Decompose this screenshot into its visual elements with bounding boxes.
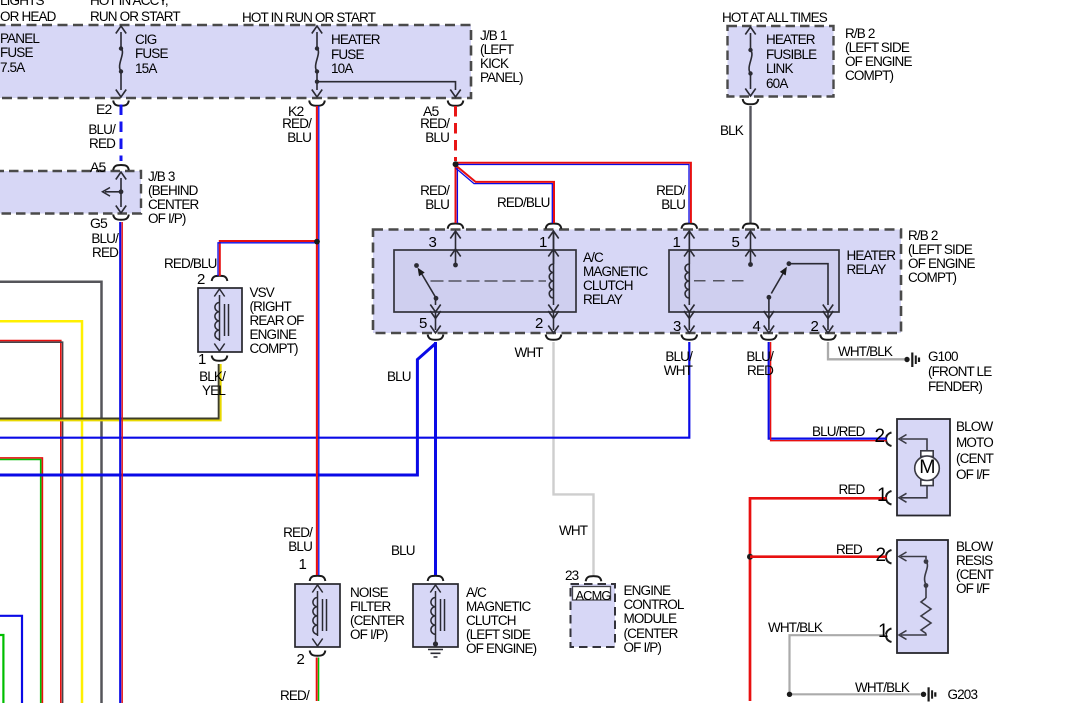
pin 5 A/C relay [419,316,427,331]
wire RED/BLU junction to heater relay pin 1 [457,163,691,223]
label WHT/BLK (G100 wire) [838,345,892,359]
label heater fuse [331,33,380,77]
connector arc A/C relay pin 5 (bottom) [428,335,444,340]
wire BLK/YEL from VSV pin 1 [0,364,219,419]
connector blower resistor pin 2 [886,550,892,564]
relay block R/B 2 heater fusible link box [728,26,834,97]
connector arc heater relay pin 5 [743,224,759,229]
label R/B 2 top [845,27,912,83]
header HOT IN ACCY RUN OR START [90,0,180,25]
connector blower resistor pin 1 [886,629,892,643]
label RED/BLU (heater pin 1 wire) [625,184,685,212]
header HOT IN RUN OR START [242,11,375,25]
wire BLU/RED from G5 down [119,222,121,703]
motor M letter [917,460,937,474]
pin 2 A/C relay [535,316,543,331]
label BLU (pin 5 wire) [387,370,411,384]
noise filter (center of I/P) box [295,584,340,647]
VSV solenoid symbol [214,289,228,351]
wire BLU/RED from heater relay pin 4 to blower motor pin 2 [769,342,887,439]
wire BLU/RED dashed from E2 to J/B 3 [120,105,123,162]
pin 1 heater relay [673,235,681,250]
wire BLK from heater fusible link to heater relay pin 5 [749,106,751,223]
junction on WHT/BLK at G203 [787,692,792,697]
wire WHT/BLK from blower resistor pin 1 to G203 [790,635,921,694]
connector blower motor pin 2 [886,433,892,447]
terminal A5 [423,104,438,118]
label BLU/RED (blower wire) [812,425,865,439]
label RED/BLU (K2 wire) [251,117,311,145]
heater relay pin 1 coil lead [684,231,694,264]
wire RED/BLU from K2 to noise filter pin 1 [316,106,318,575]
label noise filter [350,586,404,642]
heater relay pin 4 lead [764,311,774,333]
label RED/ (cut) [280,689,309,703]
wire BLU from A/C relay pin 5 to A/C magnetic clutch [434,342,437,575]
J/B 3 internal bus with arrows [103,172,127,213]
header HOT AT ALL TIMES [722,11,827,25]
connector VSV pin 2 [212,276,228,281]
terminal K2 [288,104,303,118]
label BLK [720,124,743,138]
connector terminal A5 (J/B 1) [448,101,464,106]
wire WHT from A/C relay pin 2 to ECM pin 23 [554,342,594,575]
heater relay pin 3 lead [684,311,694,333]
A/C magnetic clutch (left side of engine) box [413,584,458,647]
wire WHT/BLK from heater relay pin 2 to G100 [828,342,905,359]
wire RED/BLU dashed from A5 down [454,106,457,161]
wire left RED/GRN elbow [0,458,42,703]
pin 5 heater relay [732,235,740,250]
connector arc heater relay pin 3 (bottom) [682,335,698,340]
pin 3 heater relay [673,319,681,334]
blower resistor internals: thermal fuse and resistor element [899,552,931,640]
pin 1 blower motor [877,486,887,505]
wire RED from blower motor pin 1 [750,498,887,701]
connector blower motor pin 1 [886,491,892,505]
pin 1 blower resistor [878,622,888,641]
junction box J/B 1 (left kick panel) [0,25,471,98]
label RED/BLU (noise filter wire) [252,526,312,554]
pin 2 VSV [197,272,205,287]
ground symbol at A/C clutch [428,641,443,657]
heater relay pin 5 stub [745,231,755,267]
blower motor (center of I/P) box [897,419,950,516]
pin 4 heater relay [753,319,761,334]
fusible link HEATER FUSIBLE LINK 60A [745,27,755,96]
connector A/C clutch pin [428,576,444,581]
junction node below A5 [453,161,459,167]
junction on RED wire [747,554,753,560]
label BLK/YEL [165,370,225,398]
label heater relay [847,249,896,277]
A/C relay pin 1 coil lead [548,231,558,264]
wire left blue elbow [0,616,22,703]
label WHT [515,346,543,360]
pin 2 blower motor [875,427,885,446]
connector arc A/C relay pin 2 (bottom) [546,335,562,340]
label BLU/WHT [632,350,692,378]
ACMG pin name white box [573,587,611,601]
connector terminal A5 (J/B 3 top) [113,165,129,170]
ground symbol G203 [921,687,936,701]
connector arc heater relay pin 2 (bottom) [820,335,836,340]
pin 2 heater relay [811,319,819,334]
wire RED/BLU junction diagonal to A/C relay pin 1 [457,166,554,223]
A/C relay pin 3 stub [450,231,460,267]
label G203 [948,688,978,702]
heater relay inner box [669,250,839,312]
heater relay switch [767,261,834,312]
junction on K2 wire for VSV branch [314,239,320,245]
label RED/BLU (A5 wire) [389,117,449,145]
junction box J/B 3 (behind center of I/P) [0,171,141,214]
connector arc heater relay pin 4 (bottom) [761,335,777,340]
connector noise filter pin 2 [310,651,326,656]
label RED/BLU (VSV branch) [164,257,217,271]
pin 23 ECM [565,569,578,583]
label RED/BLU (pin 1 wire) [497,196,550,210]
label WHT/BLK (resistor wire) [768,621,822,635]
terminal E2 [96,102,111,116]
label cig fuse [135,33,168,77]
wire left yellow elbow [0,321,82,703]
noise filter coil symbol [312,585,326,646]
connector arcs on relay box top: pin 3 [448,224,464,229]
label RED (resistor pin 2 wire) [836,543,862,557]
label A/C magnetic clutch [466,586,536,656]
label engine control module [624,584,684,655]
connector terminal K2 [309,101,325,106]
heater relay coil [684,232,694,312]
connector terminal G5 (J/B 3 bottom) [113,215,129,220]
label RED (blower pin 1 wire) [839,483,865,497]
wire left green elbow [0,635,3,703]
A/C relay pin 2 lead [548,311,558,333]
label A/C magnetic clutch relay [583,251,647,307]
label WHT (ECM wire) [559,524,587,538]
terminal A5 (J/B 3) [90,160,105,174]
pin 1 noise filter [299,557,307,572]
wire RED/GRN from noise filter pin 2 [316,658,318,702]
pin 3 A/C relay [429,235,437,250]
wire BLU/WHT from heater relay pin 3 going left [0,342,689,438]
label blower motor (cut) [956,419,993,483]
label panel fuse [0,32,39,76]
pin 2 noise filter [297,652,305,667]
label VSV [250,286,304,356]
label heater fusible link [766,33,816,91]
label BLU (clutch wire) [391,544,415,558]
A/C magnetic clutch coil symbol [430,585,444,644]
connector terminal E2 [113,101,129,106]
connector noise filter pin 1 [310,576,326,581]
label G100 [928,349,991,395]
wire inside J/B 1 from heater fuse to terminal A5 [315,80,461,98]
A/C relay coil [548,232,558,312]
engine control module (ACMG) box [571,584,616,647]
label R/B 2 right [908,229,975,285]
pin name ACMG [576,589,611,603]
heater relay actuation dashed line [694,280,748,282]
label RED/BLU (pin 3 wire) [389,184,449,212]
relay block R/B 2 (left side of engine compt) outer dashed box [373,230,901,334]
wire left RED/BLK elbow [0,341,61,703]
VSV (right rear of engine compt) box [198,288,242,352]
fuse CIG FUSE 15A [116,26,126,97]
label blower resistor (cut) [956,540,993,596]
A/C relay actuation dashed line [431,280,547,282]
label WHT/BLK (G203 wire) [855,681,909,695]
A/C relay pin 5 lead [430,305,440,334]
pin 1 VSV [198,352,206,367]
wire RED branch to blower resistor pin 2 [750,555,887,558]
wire BLU heavy from A/C relay pin 5 going left [0,344,436,476]
connector VSV pin 1 [212,356,228,361]
wire RED/BLU branch to VSV pin 2 [220,241,317,276]
ground symbol G100 [904,353,919,368]
label BLU/RED (pin 4) [713,350,773,378]
connector ECM pin 23 [586,576,602,581]
wire RED/BLU junction to A/C relay pin 3 [455,164,457,223]
header text (cut) tail lights [0,0,56,25]
A/C relay switch [414,263,438,305]
connector arc heater relay pin 1 [682,224,698,229]
A/C magnetic clutch relay inner box [394,250,576,312]
pin 1 A/C relay [539,235,547,250]
blower resistor (center of I/P) box [897,540,948,653]
label BLU/RED (G5 wire) [58,232,118,260]
connector arc A/C relay pin 1 [546,224,562,229]
connector below fusible link [743,99,759,104]
pin 2 blower resistor [876,546,886,565]
label BLU/RED (E2 wire) [55,123,115,151]
heater relay pin 2 lead [823,311,833,333]
label J/B 3 [148,170,198,226]
terminal G5 [90,216,107,230]
blower motor internal wiring and motor symbol [899,435,939,503]
wire left gray (BLK) elbow [0,282,102,703]
label J/B 1 [480,29,523,85]
fuse HEATER FUSE 10A [312,26,322,97]
